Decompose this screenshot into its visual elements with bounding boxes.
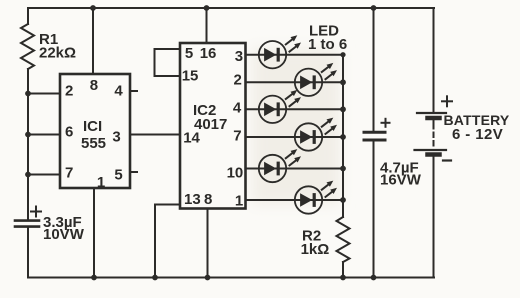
LED D2 — [295, 63, 337, 96]
battery cell 1 long plate — [417, 112, 446, 114]
svg-text:1 to 6: 1 to 6 — [308, 36, 347, 53]
wire IC1 pin1 to bottom rail — [93, 188, 95, 278]
wire battery branch upper — [433, 8, 435, 112]
svg-text:16VW: 16VW — [380, 171, 422, 188]
wire IC1 pin3 to IC2 pin14 — [130, 134, 180, 136]
wire LED row 5 (pin 10) — [246, 168, 344, 170]
wire IC1 pin2 to left rail — [28, 93, 60, 95]
wire IC1 pin5 stub — [130, 171, 137, 173]
R2 value label — [301, 227, 330, 258]
wire R2 to bottom rail — [342, 262, 344, 278]
svg-text:2: 2 — [65, 83, 73, 100]
C2 plus sign — [382, 119, 390, 127]
LED group label — [308, 23, 347, 53]
battery cell 2 short plate — [428, 152, 440, 157]
node top rail / C2 — [371, 5, 377, 11]
wire battery branch lower — [433, 157, 435, 278]
wire C2 branch lower — [373, 142, 375, 278]
node bottom rail / pin1 — [91, 275, 97, 281]
wire IC2 pin16 to top rail — [206, 8, 208, 43]
IC1 555 timer box — [60, 74, 130, 188]
node bus row1 — [340, 52, 345, 57]
wire LED row 4 (pin 7) — [246, 136, 344, 138]
svg-text:10: 10 — [227, 164, 244, 181]
wire top supply rail — [28, 7, 434, 9]
counter IC2 4017 box — [180, 43, 246, 209]
wire IC2 pin8 to bottom rail — [207, 209, 209, 278]
svg-text:555: 555 — [81, 135, 106, 152]
node bottom rail / C2 — [371, 275, 377, 281]
resistor R1 — [21, 24, 34, 69]
svg-text:15: 15 — [182, 68, 199, 85]
battery cell 1 short plate — [428, 116, 440, 121]
svg-text:3: 3 — [112, 129, 120, 146]
wire left rail mid segment — [27, 69, 29, 219]
wire IC1 pin8 to top rail — [92, 8, 94, 74]
LED D4 — [295, 118, 337, 151]
IC2 name label — [193, 102, 227, 133]
C1 plus sign — [31, 207, 41, 217]
svg-text:1: 1 — [235, 193, 243, 210]
capacitor C1 3.3uF — [15, 221, 39, 227]
battery minus sign — [443, 159, 451, 161]
C2 value label — [380, 159, 422, 188]
wire IC1 pin4 stub — [130, 90, 137, 92]
svg-text:10VW: 10VW — [43, 226, 85, 243]
wire LED row 3 (pin 4) — [246, 108, 344, 110]
wire LED row 2 (pin 2) — [246, 81, 344, 83]
svg-text:5: 5 — [114, 167, 122, 184]
R1 value label — [39, 31, 76, 62]
battery plus sign — [442, 96, 452, 106]
wire C2 branch upper — [373, 8, 375, 131]
wire LED row 1 (pin 3) — [246, 54, 344, 56]
node left rail / pin7 — [25, 172, 31, 178]
svg-text:8: 8 — [90, 77, 98, 94]
wire LED row 6 (pin 1) — [246, 199, 344, 201]
node bottom rail / pin8 — [205, 275, 211, 281]
LED D6 — [295, 181, 337, 214]
LED D3 — [259, 90, 301, 123]
node bottom rail / pin13 — [152, 275, 158, 281]
capacitor C2 4.7uF — [364, 132, 385, 140]
wire IC2 pin5 to pin15 loop — [155, 49, 182, 76]
C1 value label — [43, 214, 85, 243]
svg-text:6: 6 — [65, 124, 73, 141]
node bus row2 — [340, 79, 346, 85]
LED D1 — [259, 35, 301, 68]
svg-text:8: 8 — [204, 191, 212, 208]
wire left rail upper segment — [27, 8, 29, 24]
node left rail / pin6 — [25, 132, 31, 138]
svg-text:1kΩ: 1kΩ — [301, 241, 330, 258]
wire IC1 pin6 to left rail — [28, 134, 60, 136]
wire left rail lower segment — [27, 228, 29, 278]
node bottom rail / R2 — [340, 275, 346, 281]
wire LED cathode bus — [342, 55, 344, 217]
svg-text:1: 1 — [97, 174, 105, 191]
svg-text:22kΩ: 22kΩ — [39, 45, 76, 62]
node top rail / IC1 pin8 — [90, 5, 96, 11]
node bus row6 — [340, 197, 346, 203]
svg-text:4: 4 — [233, 100, 242, 117]
wire IC1 pin7 to left rail — [28, 174, 60, 176]
battery cell 2 long plate — [415, 149, 447, 151]
svg-text:6 - 12V: 6 - 12V — [452, 126, 503, 143]
svg-text:14: 14 — [183, 130, 200, 147]
battery cell 1 stub — [433, 119, 435, 123]
resistor R2 — [337, 217, 350, 262]
battery dashed link — [433, 124, 435, 147]
svg-text:7: 7 — [65, 165, 73, 182]
node bus row4 — [340, 134, 346, 140]
node bus row3 — [340, 106, 346, 112]
svg-text:4: 4 — [114, 83, 123, 100]
svg-text:13: 13 — [184, 191, 201, 208]
wire IC2 pin13 to bottom rail — [155, 205, 180, 278]
wire bottom rail — [28, 277, 434, 279]
svg-text:16: 16 — [200, 45, 217, 62]
svg-text:2: 2 — [234, 72, 242, 89]
node top rail / IC2 pin16 — [204, 5, 210, 11]
svg-text:ICI: ICI — [83, 118, 102, 135]
svg-text:3: 3 — [235, 48, 243, 65]
node left rail / pin2 — [25, 91, 31, 97]
svg-text:7: 7 — [233, 128, 241, 145]
battery label — [444, 112, 510, 143]
IC1 name label — [81, 118, 106, 152]
svg-text:5: 5 — [185, 45, 193, 62]
LED D5 — [259, 149, 301, 182]
node bus row5 — [340, 166, 346, 172]
